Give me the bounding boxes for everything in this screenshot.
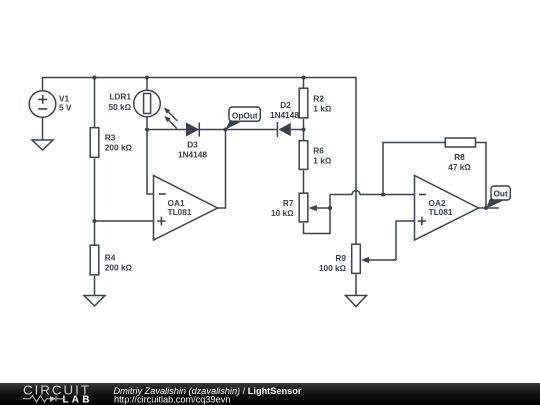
svg-text:200 kΩ: 200 kΩ <box>105 143 133 153</box>
svg-text:1N4148: 1N4148 <box>270 110 299 120</box>
svg-text:Out: Out <box>493 189 508 199</box>
svg-text:LAB: LAB <box>63 395 93 405</box>
svg-text:http://circuitlab.com/cq39evn: http://circuitlab.com/cq39evn <box>114 394 230 404</box>
svg-text:R8: R8 <box>454 152 465 162</box>
svg-text:1 kΩ: 1 kΩ <box>313 156 332 166</box>
svg-text:D3: D3 <box>187 139 198 149</box>
svg-text:5 V: 5 V <box>59 102 72 112</box>
svg-text:R6: R6 <box>313 146 324 156</box>
svg-text:200 kΩ: 200 kΩ <box>105 263 133 273</box>
svg-text:R7: R7 <box>283 198 294 208</box>
svg-text:100 kΩ: 100 kΩ <box>319 263 347 273</box>
svg-text:47 kΩ: 47 kΩ <box>448 162 471 172</box>
svg-text:R4: R4 <box>105 253 116 263</box>
svg-text:R9: R9 <box>335 253 346 263</box>
svg-text:D2: D2 <box>280 100 291 110</box>
svg-text:1 kΩ: 1 kΩ <box>313 104 332 114</box>
svg-text:50 kΩ: 50 kΩ <box>108 102 131 112</box>
svg-text:TL081: TL081 <box>429 207 453 217</box>
svg-text:LDR1: LDR1 <box>109 92 131 102</box>
svg-text:10 kΩ: 10 kΩ <box>271 208 294 218</box>
svg-text:TL081: TL081 <box>168 207 192 217</box>
svg-text:1N4148: 1N4148 <box>178 149 207 159</box>
svg-text:R2: R2 <box>313 94 324 104</box>
svg-text:OpOut: OpOut <box>232 111 258 121</box>
svg-text:R3: R3 <box>105 133 116 143</box>
